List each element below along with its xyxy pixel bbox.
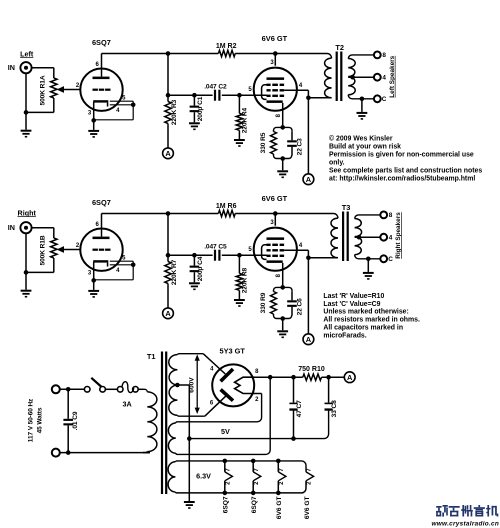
svg-text:Left Speakers: Left Speakers xyxy=(389,55,396,97)
svg-text:6V6 GT: 6V6 GT xyxy=(304,496,311,519)
svg-text:T3: T3 xyxy=(342,203,351,212)
svg-text:microFarads.: microFarads. xyxy=(323,333,366,340)
svg-text:5V: 5V xyxy=(221,427,230,436)
svg-text:A: A xyxy=(165,149,171,158)
svg-text:at: http://wkinsler.com/radios: at: http://wkinsler.com/radios/5tubeamp.… xyxy=(329,176,475,183)
svg-text:1M R6: 1M R6 xyxy=(216,203,237,210)
svg-text:22 C6: 22 C6 xyxy=(297,298,304,316)
svg-text:Build at your own risk: Build at your own risk xyxy=(329,143,401,150)
svg-text:Unless marked otherwise:: Unless marked otherwise: xyxy=(323,309,408,316)
svg-text:600V: 600V xyxy=(188,377,195,393)
svg-text:All resistors marked in ohms.: All resistors marked in ohms. xyxy=(323,317,420,324)
svg-text:IN: IN xyxy=(8,223,15,232)
svg-text:220K R7: 220K R7 xyxy=(171,259,178,285)
svg-text:.01 C9: .01 C9 xyxy=(72,411,79,430)
svg-text:6SQ7: 6SQ7 xyxy=(251,496,258,513)
svg-text:4: 4 xyxy=(389,235,393,242)
svg-text:33 C8: 33 C8 xyxy=(331,400,338,418)
svg-text:330 R9: 330 R9 xyxy=(260,292,267,313)
svg-text:Permission is given for non-co: Permission is given for non-commercial u… xyxy=(329,152,474,159)
svg-text:1M R2: 1M R2 xyxy=(216,43,237,50)
svg-text:Left: Left xyxy=(20,49,34,58)
svg-text:Right: Right xyxy=(18,208,37,217)
svg-text:45 Watts: 45 Watts xyxy=(37,407,44,433)
svg-text:C: C xyxy=(388,256,393,263)
svg-text:500K R1B: 500K R1B xyxy=(39,235,46,265)
svg-text:8: 8 xyxy=(382,52,386,59)
svg-text:200p C4: 200p C4 xyxy=(197,256,204,281)
svg-text:A: A xyxy=(165,309,171,318)
svg-text:6SQ7: 6SQ7 xyxy=(92,198,111,207)
svg-text:IN: IN xyxy=(8,63,15,72)
svg-text:220K R8: 220K R8 xyxy=(241,268,248,294)
svg-text:22 C3: 22 C3 xyxy=(297,138,304,156)
svg-text:4: 4 xyxy=(382,75,386,82)
svg-text:Last 'R' Value=R10: Last 'R' Value=R10 xyxy=(323,293,384,300)
svg-text:© 2009 Wes Kinsler: © 2009 Wes Kinsler xyxy=(329,134,393,142)
svg-text:6V6 GT: 6V6 GT xyxy=(262,194,288,203)
svg-text:See complete parts list and co: See complete parts list and construction… xyxy=(329,168,482,175)
svg-text:.047 C2: .047 C2 xyxy=(204,84,227,91)
svg-text:.047 C5: .047 C5 xyxy=(204,244,227,251)
svg-text:A: A xyxy=(306,335,312,344)
svg-text:All capacitors marked in: All capacitors marked in xyxy=(323,325,403,332)
svg-text:330 R5: 330 R5 xyxy=(260,132,267,153)
svg-text:A: A xyxy=(347,373,353,382)
svg-text:8: 8 xyxy=(389,212,393,219)
svg-text:only.: only. xyxy=(329,160,345,167)
svg-text:750 R10: 750 R10 xyxy=(298,366,325,373)
svg-text:Right Speakers: Right Speakers xyxy=(395,212,402,259)
svg-text:6V6 GT: 6V6 GT xyxy=(276,496,283,519)
svg-text:3A: 3A xyxy=(122,400,131,409)
svg-text:200p C1: 200p C1 xyxy=(197,96,204,121)
svg-text:www.crystalradio.cn: www.crystalradio.cn xyxy=(432,520,500,527)
svg-text:500K R1A: 500K R1A xyxy=(39,75,46,105)
svg-text:6.3V: 6.3V xyxy=(196,472,211,481)
svg-text:6V6 GT: 6V6 GT xyxy=(262,34,288,43)
svg-text:220K R3: 220K R3 xyxy=(171,99,178,125)
svg-text:6SQ7: 6SQ7 xyxy=(223,496,230,513)
svg-text:6SQ7: 6SQ7 xyxy=(92,38,111,47)
svg-text:T1: T1 xyxy=(147,352,156,361)
svg-text:47 C7: 47 C7 xyxy=(296,400,303,418)
svg-text:C: C xyxy=(382,96,387,103)
svg-text:T2: T2 xyxy=(335,43,344,52)
svg-text:117 V 50-60 Hz: 117 V 50-60 Hz xyxy=(27,398,34,442)
svg-text:5Y3 GT: 5Y3 GT xyxy=(219,346,245,355)
svg-text:A: A xyxy=(306,175,312,184)
svg-text:Last 'C' Value=C9: Last 'C' Value=C9 xyxy=(323,301,380,308)
svg-text:220K R4: 220K R4 xyxy=(241,108,248,134)
